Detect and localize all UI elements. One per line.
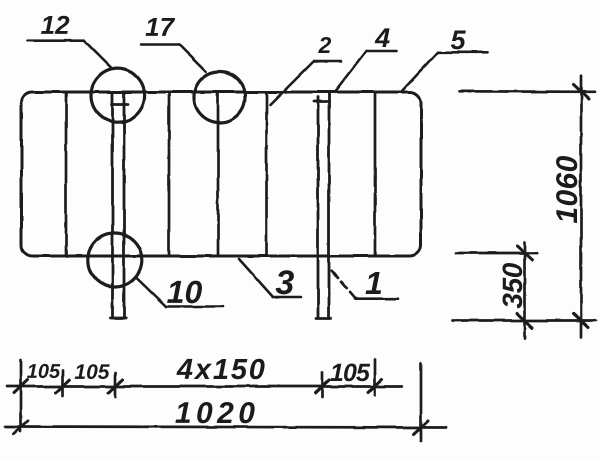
- svg-text:5: 5: [450, 25, 466, 55]
- svg-text:4: 4: [374, 23, 390, 53]
- svg-text:350: 350: [497, 262, 528, 308]
- svg-text:1060: 1060: [551, 155, 584, 223]
- svg-text:4x150: 4x150: [176, 354, 265, 386]
- svg-text:105: 105: [27, 361, 61, 383]
- svg-text:2: 2: [317, 32, 331, 58]
- svg-text:1: 1: [365, 265, 383, 301]
- svg-text:3: 3: [275, 264, 294, 302]
- svg-text:105: 105: [330, 359, 371, 387]
- svg-text:10: 10: [167, 274, 203, 310]
- svg-text:105: 105: [74, 361, 109, 384]
- svg-text:12: 12: [41, 10, 70, 40]
- svg-text:17: 17: [145, 12, 175, 42]
